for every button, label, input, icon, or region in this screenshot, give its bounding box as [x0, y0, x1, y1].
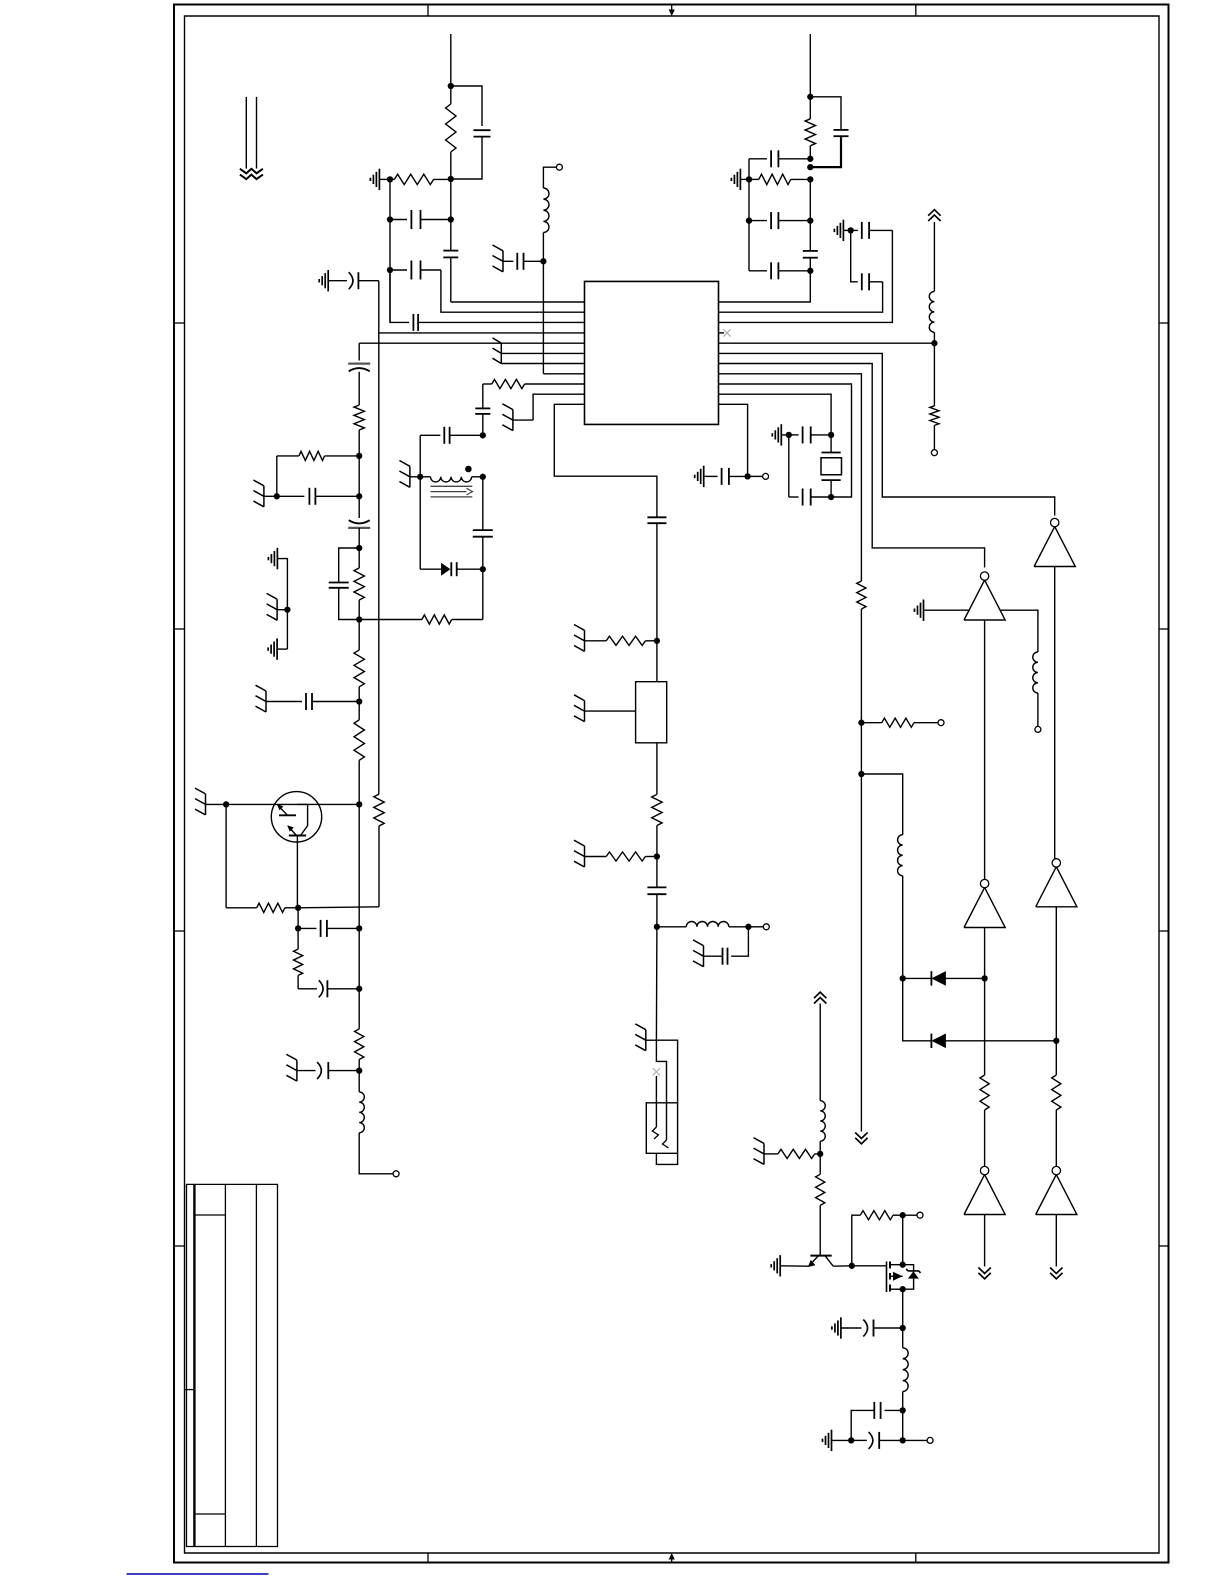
wire VL2 vertical [378, 333, 380, 794]
resistor R22 [1052, 1075, 1061, 1110]
terminal [938, 720, 944, 726]
node dot [654, 638, 660, 644]
capacitor C32 (curved) [851, 1439, 867, 1441]
resistor R10 [226, 907, 257, 909]
inverter U6 (buffer E) [964, 1175, 1005, 1215]
node dot [981, 975, 987, 981]
inductor L5 [1033, 652, 1038, 693]
capacitor C12 (curved) [297, 1070, 316, 1072]
wire filter down [656, 743, 658, 795]
capacitor C25 [851, 229, 858, 231]
capacitor C7 [277, 495, 305, 497]
capacitor C22 [749, 220, 767, 222]
wire down [902, 1392, 904, 1411]
wire to terminal [1037, 693, 1039, 726]
node dot [356, 698, 362, 704]
wire x=543.4 vertical [542, 261, 544, 374]
title block column divider x=256.4 [255, 1184, 257, 1546]
wire down to inductor L7 [819, 1004, 821, 1101]
wire [277, 559, 287, 650]
crystal Y1 [830, 435, 832, 453]
node dot [356, 1067, 362, 1073]
wire IC pin5 right [719, 342, 935, 344]
ground bar for pins 5-7 [500, 343, 502, 363]
inductor L4 [933, 332, 935, 343]
wire x=810.3 vertical with capacitor C24 [809, 179, 811, 251]
border zone tick right y=629 [1159, 628, 1169, 630]
resistor R16 [809, 97, 811, 119]
node dot [1053, 1038, 1059, 1044]
MOSFET Q3 [886, 1262, 888, 1293]
border zone tick right y=1246 [1159, 1245, 1169, 1247]
wire VL2 lower [378, 826, 380, 907]
capacitor C19 to ground [731, 927, 748, 956]
transformer T1 polarity dot [465, 466, 472, 473]
wire node down [902, 1410, 904, 1440]
capacitor C14 on x=482.8 [482, 384, 484, 408]
ground (slash) [763, 1143, 765, 1164]
ground (slash) [703, 946, 705, 967]
node dot [744, 473, 750, 479]
blue footer line [127, 1573, 269, 1575]
resonator box path right [656, 1040, 677, 1103]
wire IC pin11 right [719, 404, 748, 476]
capacitor C20 parallel [810, 97, 841, 130]
wire to IC pin 4 left [379, 281, 585, 333]
ground (slash) [584, 630, 586, 651]
node dot [817, 1151, 823, 1157]
resistor R3 on VL2 [374, 794, 384, 826]
capacitor C17 [647, 516, 666, 518]
node dot [480, 474, 486, 480]
wire Q1 node down [297, 908, 299, 929]
node dot [858, 771, 864, 777]
border zone tick left y=1246 [174, 1245, 185, 1247]
transistor Q2 (PNP) [810, 1255, 831, 1257]
wire chain down [655, 927, 658, 1040]
capacitor C4 [390, 269, 407, 271]
inductor L7 [820, 1101, 825, 1142]
ground (bars) [276, 638, 278, 659]
border centering arrow top [671, 5, 673, 11]
node dot [807, 268, 813, 274]
transformer T1 core lines with arrow [431, 485, 473, 487]
resistor R11 [297, 928, 299, 949]
wire down [656, 523, 658, 641]
wire left leg down [419, 477, 421, 569]
node dot [900, 1325, 906, 1331]
title block inner thick divider [193, 1184, 195, 1546]
wire IC pin10 right to crystal top [719, 394, 832, 435]
wire IC pin8 left [543, 373, 584, 375]
node dot [480, 432, 486, 438]
border zone tick right y=931 [1159, 930, 1169, 932]
wire Q1 emitter down [296, 836, 298, 908]
node dot [900, 1437, 906, 1443]
wire inverter A down [984, 620, 986, 880]
wire long horizontal y=619.5 to transformer network [359, 619, 422, 621]
MOSFET body diode (zener) [903, 1265, 914, 1271]
inverter U4 (buffer C) [964, 888, 1005, 928]
capacitor C27 [789, 434, 799, 436]
wire to MOSFET drain [902, 1215, 904, 1265]
ground (slash) [263, 486, 265, 507]
ground (bars) [842, 220, 844, 241]
border centering arrow bottom [671, 1557, 673, 1563]
wire VL to terminal [359, 1133, 393, 1174]
node dot [448, 216, 454, 222]
wire to filter [656, 641, 658, 682]
node dot [849, 1263, 855, 1269]
ground (bars) [276, 548, 278, 569]
trimmer capacitor CT2 [348, 527, 370, 529]
resonator XT1 box [646, 1103, 677, 1154]
ground (bars) [327, 270, 329, 291]
wire ground to node [264, 495, 277, 497]
node dot [828, 494, 834, 500]
node dot [858, 720, 864, 726]
wire IC pin7 left [501, 363, 584, 365]
node dot [356, 925, 362, 931]
node dot [807, 94, 813, 100]
resistor R15 [585, 856, 607, 858]
capacitor C13 [503, 260, 513, 262]
inductor L2 [542, 233, 544, 262]
wire ground to R2 [379, 178, 390, 180]
resistor R8 on VL [354, 650, 364, 687]
ceramic filter FL1 [636, 682, 667, 743]
node dot [295, 925, 301, 931]
wire down [819, 1141, 821, 1154]
node dot [786, 432, 792, 438]
wire inverter B down [1054, 567, 1056, 860]
node dot [900, 1262, 906, 1268]
capacitor C10 [298, 927, 316, 929]
resistor R23 [764, 1153, 778, 1155]
wire x=749 vertical [748, 159, 750, 271]
ground (bars) [378, 169, 380, 190]
capacitor C15 transformer top [420, 434, 440, 436]
inductor L3 branch [657, 926, 686, 928]
node dot [654, 924, 660, 930]
node dot [807, 176, 813, 182]
ground (slash) [205, 794, 207, 815]
node dot [900, 1212, 906, 1218]
ground (bars) [703, 466, 705, 487]
resonator second lead [655, 1076, 657, 1127]
capacitor C30 (curved) [841, 1327, 862, 1329]
wire IC pin9 right to crystal bottom [719, 384, 852, 497]
resistor R19 [857, 581, 866, 609]
wire left leg [419, 435, 421, 477]
wire x=902.7 corner to diode D2 [903, 978, 932, 1040]
resistor R17 [749, 178, 759, 180]
resistor R1 vertical [450, 86, 452, 104]
inductor L8 [902, 1328, 904, 1348]
ground (slash) [265, 691, 267, 712]
capacitor C23 [749, 270, 767, 272]
resistor R14 [652, 794, 662, 825]
wire inverter A right to inductor [1000, 610, 1038, 652]
node dot [295, 905, 301, 911]
node dot [828, 432, 834, 438]
node dot [274, 493, 280, 499]
ground (slash) [584, 846, 586, 867]
terminal [917, 1212, 923, 1218]
wire to IC pin3 right [719, 230, 893, 322]
wire left branch down [225, 804, 227, 907]
capacitor C11 (curved) [297, 975, 299, 988]
terminal [931, 450, 937, 456]
title block narrow cell divider [185, 1389, 195, 1391]
drawing frame outer border [174, 5, 1169, 1563]
terminal [393, 1171, 399, 1177]
wire inverter E down to off-page [984, 1215, 986, 1267]
wire x=861.4 down to off-page [860, 723, 862, 1132]
wire x=482.8 with capacitor C16 [482, 477, 484, 530]
border zone tick left y=931 [174, 930, 185, 932]
wire to transistor Q2 [819, 1205, 821, 1255]
terminal [748, 475, 763, 477]
node dot [900, 975, 906, 981]
ground (slash) [502, 251, 504, 272]
node dot [448, 83, 454, 89]
wire IC pin10 left [533, 394, 584, 420]
wire branch left vertical [276, 456, 278, 496]
wire IC pin6 right to inverter [719, 353, 1055, 515]
IC U1 body [585, 281, 719, 424]
wire to VL2 [298, 907, 379, 908]
resistor R25 + terminal [852, 1215, 861, 1266]
transformer T1 winding [431, 477, 472, 482]
resistor R9 on VL [358, 702, 360, 720]
capacitor C8 branch [339, 548, 360, 583]
node dot [746, 176, 752, 182]
IC pin4 right stub with X [719, 332, 725, 334]
capacitor C1 parallel branch [451, 86, 482, 126]
terminal [1035, 726, 1041, 732]
resonator inner lead with jog [656, 1040, 666, 1140]
wire IC pin11 left to middle chain [554, 404, 657, 517]
wire IC pin7 right to inverter [719, 364, 985, 568]
title block column divider x=225.4 [224, 1184, 226, 1546]
resistor R24 vertical [819, 1154, 821, 1174]
wire to IC pin1 right [719, 271, 811, 302]
ground (bars) [739, 169, 741, 190]
inverter U2 (buffer B) [1034, 527, 1075, 567]
wire down [902, 876, 904, 979]
resistor R5 branch [277, 455, 299, 457]
wire to terminal [543, 167, 556, 188]
resistor R21 [980, 1075, 989, 1110]
antenna chevron row 1 [240, 169, 263, 174]
terminal [556, 164, 562, 170]
ground (slash) [409, 466, 411, 487]
resistor R26 on VL [355, 1029, 364, 1060]
node dot [807, 156, 813, 162]
node dot [807, 217, 813, 223]
border zone tick right y=323 [1159, 322, 1169, 324]
diode D1 [903, 977, 932, 979]
wire IC pin9 left with resistor R12 [483, 383, 492, 385]
resistor R20 to terminal [861, 722, 881, 724]
inductor L6 [898, 835, 903, 876]
ground (bars) [780, 424, 782, 445]
capacitor C5 on pin3 line [390, 270, 409, 322]
wire to IC pin 1 left [451, 301, 585, 303]
node dot [356, 801, 362, 807]
wire to IC pin 2 left [441, 270, 585, 312]
wire x=482.8 to resistor line [482, 569, 484, 619]
border zone tick bottom x=915.8 [915, 1553, 917, 1563]
inverter U3 (buffer A) [964, 580, 1005, 620]
node dot [931, 340, 937, 346]
capacitor C2 [390, 219, 407, 221]
antenna twin-lead line 2 [256, 97, 258, 169]
wire IC pin8 right [719, 374, 862, 581]
ground (slash) [645, 1030, 647, 1051]
off-page chevron down [855, 1133, 867, 1139]
capacitor C18 [656, 857, 658, 888]
ground (bars) [831, 1430, 833, 1451]
wire inverter C down [984, 928, 986, 1076]
border zone tick top x=915.8 [915, 5, 917, 17]
border zone tick left y=323 [174, 322, 185, 324]
resistor R13 [585, 640, 607, 642]
resonator bottom tab [656, 1153, 677, 1164]
terminal [748, 926, 763, 928]
wire Q2 collector to gate [833, 1265, 852, 1267]
wire VL down [358, 804, 360, 1029]
wire IC pin5 left to VL [359, 342, 584, 344]
wire top feed right [809, 34, 811, 97]
node dot [223, 801, 229, 807]
node dot [387, 216, 393, 222]
terminal [903, 1439, 927, 1441]
node dot [417, 474, 423, 480]
capacitor C9 [266, 701, 302, 703]
node dot [848, 227, 854, 233]
node dot [654, 853, 660, 859]
border zone tick bottom x=428 [427, 1553, 429, 1563]
node dot [746, 217, 752, 223]
diode D2 [930, 1034, 932, 1048]
node dot [480, 566, 486, 572]
wire VL top [358, 343, 360, 360]
node dot [387, 176, 393, 182]
inverter U5 (buffer D) [1036, 867, 1077, 907]
ground (bars) [923, 600, 925, 621]
drawing frame inner border [185, 16, 1160, 1553]
ground (slash) [512, 410, 514, 431]
transistor Q1 [271, 792, 321, 842]
wire branch to inductor column [861, 774, 902, 835]
capacitor C6 (curved plate) [328, 280, 347, 282]
resistor R4 on VL [354, 405, 364, 430]
ground (slash) [276, 599, 278, 620]
wire ground to inverter A [924, 609, 971, 611]
wire top feed left [450, 34, 452, 86]
wire MOSFET source down [902, 1289, 904, 1328]
ground (bars) [840, 1317, 842, 1338]
capacitor C26 [851, 230, 858, 281]
off-page chevron up [933, 222, 935, 291]
resistor R6 on VL [358, 548, 360, 568]
off-page chevron up [814, 998, 826, 1004]
node dot [284, 607, 290, 613]
node dot [900, 1407, 906, 1413]
wire to IC pin2 right [719, 282, 883, 312]
varactor diode D3 with cap [420, 568, 441, 570]
wire VL middle [358, 620, 360, 651]
capacitor C21 [749, 158, 767, 160]
node dot [356, 986, 362, 992]
node dot [356, 616, 362, 622]
antenna twin-lead line 1 [245, 97, 247, 169]
trimmer capacitor CT1 [348, 363, 370, 365]
capacitor C28 [788, 435, 790, 497]
ground (bars) [779, 1255, 781, 1276]
wire IC pin6 left [501, 352, 584, 354]
node dot [356, 493, 362, 499]
wire ground to node [832, 1439, 852, 1441]
title block outline [187, 1184, 278, 1546]
node dot [448, 176, 454, 182]
ground (slash) [296, 1060, 298, 1081]
inductor L1 on VL [359, 1092, 364, 1133]
wire ground to Q2 emitter [780, 1265, 808, 1267]
antenna chevron row 2 [240, 175, 263, 180]
wire ground to filter [585, 710, 636, 712]
node dot [387, 267, 393, 273]
node dot [356, 453, 362, 459]
wire x=450.8 down with capacitor C3 [450, 179, 452, 251]
wire ground to base [206, 803, 227, 805]
border zone tick left y=629 [174, 628, 185, 630]
inverter U7 (buffer F) [1036, 1175, 1077, 1215]
node dot [745, 924, 751, 930]
title block cell divider y=1514 [194, 1513, 225, 1515]
title block cell divider y=1215 [194, 1214, 225, 1216]
border zone tick top x=428 [427, 5, 429, 17]
ground (slash) [584, 701, 586, 722]
resistor R18 to terminal [933, 343, 935, 406]
node dot [540, 258, 546, 264]
capacitor C29 [704, 475, 718, 477]
wire inverter F down to off-page [1055, 1215, 1057, 1267]
resistor R2 [390, 178, 394, 180]
wire x=390 down [389, 179, 391, 322]
resistor R7 [422, 615, 452, 624]
wire VL [358, 456, 360, 518]
capacitor C31 [885, 1409, 903, 1411]
node dot [900, 1286, 906, 1292]
wire inverter D down [1055, 907, 1057, 1075]
no-connect X [653, 1068, 660, 1075]
node dot [356, 545, 362, 551]
